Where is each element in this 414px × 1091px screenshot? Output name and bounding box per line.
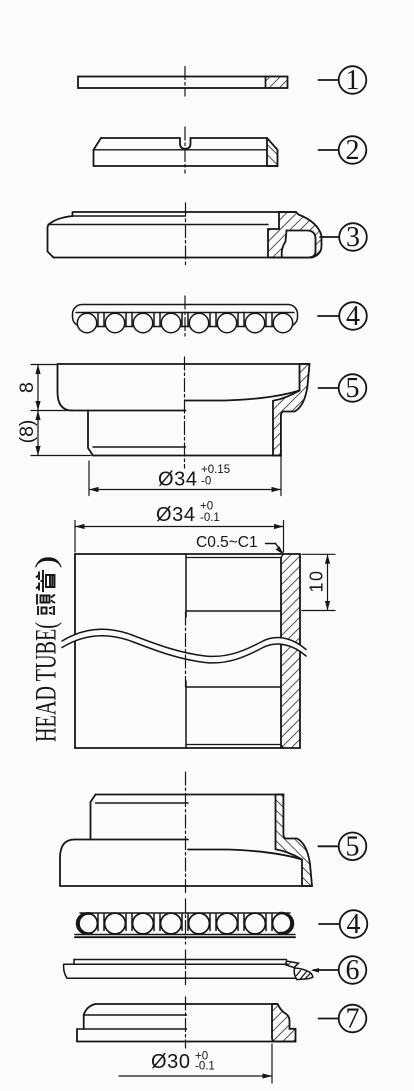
dim 8 extension mid [31, 410, 72, 412]
svg-text:7: 7 [346, 1004, 360, 1035]
top rim edge [58, 363, 310, 365]
svg-text:Ø34: Ø34 [156, 504, 196, 526]
bore edge upper [185, 554, 187, 617]
section wall hatched [273, 364, 310, 456]
strip inner top line [76, 312, 294, 314]
wall outer edge [299, 554, 301, 748]
dim Ø34 head ext right [283, 521, 285, 553]
svg-text:10: 10 [307, 569, 327, 592]
retainer top line [80, 912, 290, 914]
dim Ø34+0.15 ext left [88, 461, 90, 496]
svg-text:): ) [30, 556, 63, 569]
centerline part4 lower [185, 899, 187, 944]
top chamfer line [186, 554, 284, 558]
CJK glyph guan (tube) [36, 571, 55, 591]
svg-text:2: 2 [346, 135, 360, 166]
part 2 keyed washer [94, 138, 278, 166]
dimension Ø34+0.15 text [158, 464, 230, 491]
leader balloon 3 [320, 236, 339, 238]
section main band hatched [294, 968, 313, 980]
centerline part7 [185, 997, 187, 1048]
bowl seat line right half [186, 391, 300, 401]
balloon 6 circle [339, 956, 367, 984]
break wavy line bottom [62, 636, 306, 663]
washer left step [73, 960, 75, 965]
section body hatched [268, 212, 322, 258]
centerline part4 [184, 296, 186, 339]
top edge with key notch [101, 138, 267, 149]
centerline part6 [185, 950, 187, 986]
bore edge lower [185, 681, 187, 748]
dim 8 extension top [31, 364, 56, 366]
right end hook [280, 913, 291, 933]
balloon 4 lower circle [340, 910, 368, 938]
bottom edge [93, 455, 281, 457]
section end outline [267, 138, 278, 166]
left edge [93, 150, 95, 166]
dim 8 extension bottom [31, 455, 91, 457]
dim Ø30 ext [271, 1044, 273, 1083]
dim Ø34+0.15 line [89, 489, 281, 491]
chamfer leader [266, 544, 283, 553]
svg-text:+0.15: +0.15 [201, 464, 230, 476]
bottom chamfer line [186, 745, 284, 749]
centerline part5 [184, 357, 186, 468]
svg-text:4: 4 [346, 301, 360, 332]
svg-text:+0: +0 [200, 501, 213, 513]
tube bottom edge [75, 747, 300, 749]
bottom edge [94, 165, 278, 167]
svg-text:Ø34: Ø34 [158, 469, 198, 491]
svg-text:5: 5 [346, 832, 360, 863]
tier2 left edge [83, 1015, 85, 1029]
dim 10 ext bottom [302, 610, 335, 612]
svg-text:-0.1: -0.1 [200, 512, 220, 524]
centerlines [185, 67, 186, 1049]
centerline part3 [185, 203, 187, 268]
dim (8) line [37, 411, 39, 456]
balloon 4 circle [339, 302, 367, 330]
centerline part1 [184, 67, 186, 97]
washer body outline [78, 77, 288, 89]
counterbore step lower [186, 686, 281, 688]
dim 10 ext top [302, 553, 335, 555]
section hatched [272, 1004, 296, 1042]
body left edge [48, 225, 54, 258]
svg-text:5: 5 [346, 373, 360, 404]
head tube section view [62, 554, 306, 748]
race top edge [96, 1003, 278, 1005]
leader balloon 6 with arrow [314, 969, 339, 971]
balloon 7 circle [339, 1005, 367, 1033]
HEAD TUBE label [30, 556, 63, 743]
left chamfer [94, 138, 102, 150]
dimension graphics [31, 365, 335, 1084]
balloon 5 lower circle [339, 833, 367, 861]
part 5 lower cup (mirrored copy of upper cup) [60, 795, 312, 887]
bearing balls lower [77, 913, 294, 934]
leader balloon 7 [319, 1018, 339, 1020]
flange top edge [74, 211, 297, 213]
svg-text:-0: -0 [201, 476, 211, 488]
leader balloon 1 [319, 79, 339, 81]
part 7 crown race [77, 1004, 296, 1042]
tier2 line left half [84, 1014, 187, 1016]
washer bottom line with left tip [64, 964, 298, 978]
break wavy line top [62, 629, 306, 656]
centerline part2 [184, 127, 186, 173]
balloon 3 circle [339, 223, 367, 251]
leader balloon 5 [319, 387, 339, 389]
chamfer circle line [94, 149, 268, 151]
retainer bottom rail [75, 934, 295, 936]
leader balloon 4 [318, 315, 339, 317]
part 4 upper ball retainer [73, 305, 298, 333]
flange bottom edge left half [73, 215, 186, 217]
race top-left curve [84, 1004, 96, 1015]
retainer bottom rail second line [75, 936, 295, 938]
bearing seat pocket [282, 231, 316, 258]
dim 8 line [37, 365, 39, 411]
part 1 top spacer washer [78, 77, 288, 89]
balloon 2 circle [339, 136, 367, 164]
centerline head tube [185, 612, 187, 687]
flange left edge with rounded corner [58, 364, 73, 411]
balloon leaders and circles [311, 66, 367, 1032]
sleeve left edge [88, 411, 93, 456]
wall inner edge [280, 558, 282, 749]
svg-text:-0.1: -0.1 [195, 1061, 215, 1073]
balloon 5 circle [339, 374, 367, 402]
washer top line [74, 959, 287, 961]
balloon 1 circle [339, 66, 367, 94]
counterbore step upper [186, 610, 281, 612]
dim Ø34 head ext left [74, 521, 76, 553]
balloon numbers [346, 65, 361, 1034]
leader balloon 2 [319, 149, 339, 151]
tube top edge [75, 553, 300, 555]
lower cup geometry reuse [60, 795, 312, 887]
dimension Ø34+0-0.1 text [156, 501, 220, 527]
flange left edge [72, 212, 74, 216]
leader balloon 5 lower [318, 845, 338, 847]
centerline part5 lower [185, 772, 187, 893]
svg-text:HEAD TUBE(: HEAD TUBE( [30, 622, 63, 742]
section cut boundary [265, 77, 267, 89]
body top edge [49, 224, 269, 226]
dim Ø34+0.15 ext right [280, 450, 282, 496]
part 5 upper cup half-section [58, 364, 310, 456]
race bottom edge [77, 1041, 296, 1043]
section end hatch [267, 138, 278, 166]
left end hook [79, 914, 91, 934]
bearing balls [77, 313, 292, 332]
break ribbon [62, 629, 306, 663]
svg-text:8: 8 [16, 382, 38, 393]
svg-text:Ø30: Ø30 [151, 1051, 191, 1073]
dimension Ø30 text [151, 1051, 215, 1074]
svg-text:3: 3 [346, 222, 360, 253]
dim Ø30 line [119, 1075, 272, 1077]
svg-text:C0.5~C1: C0.5~C1 [196, 534, 258, 551]
part 4 lower ball retainer [75, 913, 295, 937]
right wall hatch [281, 554, 300, 748]
dim Ø34 head line [75, 526, 284, 528]
section hatch [266, 77, 288, 89]
tier3 left edge [76, 1029, 78, 1042]
bottom edge [54, 257, 312, 259]
washer second line [64, 963, 288, 965]
tier3 line left half [77, 1028, 187, 1030]
pocket dividers lower [98, 914, 272, 931]
leader balloon 4 lower [319, 923, 340, 925]
dim 10 line [327, 554, 329, 610]
part 6 cone washer [64, 960, 313, 980]
part 3 upper bearing cup [48, 212, 322, 258]
sleeve chamfer line left half [93, 446, 186, 448]
flange bottom edge left half [72, 410, 186, 412]
svg-text:(8): (8) [16, 420, 38, 444]
svg-text:4: 4 [347, 909, 361, 940]
svg-text:1: 1 [346, 65, 360, 96]
section upper sliver hatched [286, 961, 299, 968]
retainer strip outline [73, 305, 298, 327]
CJK glyph tou (head) [37, 594, 55, 615]
shoulder curve [49, 216, 73, 225]
pocket dividers [98, 313, 272, 327]
tube left edge [74, 554, 76, 748]
svg-text:6: 6 [346, 955, 360, 986]
